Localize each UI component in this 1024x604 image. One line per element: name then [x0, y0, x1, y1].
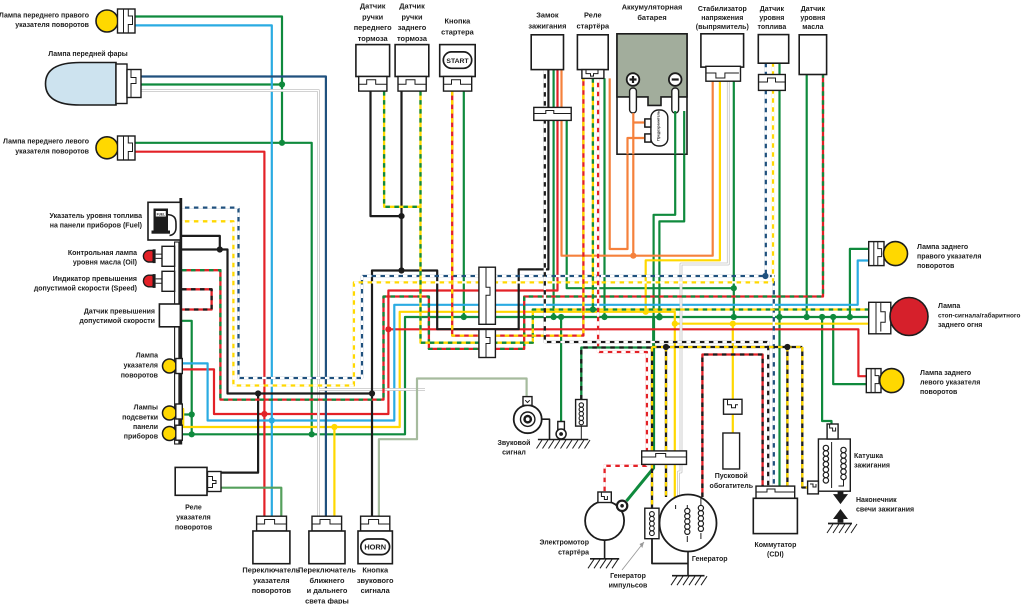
- fuel gauge panel (Fuel): [148, 202, 180, 240]
- wire yellow net: [183, 81, 869, 516]
- wire navy headlight high beam: [140, 77, 326, 517]
- speed sensor box: [159, 304, 180, 327]
- front brake sensor: [356, 45, 390, 92]
- wire red-white dashed starter relay to starter motor: [598, 78, 647, 492]
- wire navy-white dashed fuel gauge to fuel sensor: [180, 63, 773, 486]
- central connector block 1: [479, 267, 496, 324]
- wire green-black dashed to ground coil: [581, 348, 652, 400]
- svg-text:Датчикручкизаднеготормоза: Датчикручкизаднеготормоза: [397, 2, 428, 44]
- starter button: [440, 45, 476, 92]
- wire red-yellow dashed starter button to starter relay: [452, 78, 583, 335]
- svg-text:Лампа передней фары: Лампа передней фары: [48, 50, 128, 58]
- lamp stop and tail light: [869, 298, 928, 336]
- starting enrichment valve: [723, 399, 742, 469]
- wire white headlight: [140, 91, 425, 517]
- battery: [617, 34, 687, 155]
- svg-text:Генератор: Генератор: [692, 556, 728, 563]
- starter motor: [585, 492, 627, 568]
- rear brake sensor: [395, 45, 429, 92]
- svg-text:Стабилизаторнапряжения(выпрями: Стабилизаторнапряжения(выпрямитель): [696, 5, 749, 31]
- wire yellow-green dashed brake sensor to stop lamp: [384, 78, 869, 343]
- ground resistor coil element: [576, 400, 587, 440]
- svg-text:Датчикуровнятоплива: Датчикуровнятоплива: [758, 6, 787, 31]
- wire red-green dashed oil lamp to oil sensor: [182, 75, 823, 400]
- generator: [660, 495, 717, 586]
- CDI unit: [753, 486, 797, 533]
- wire light blue net: [135, 25, 869, 516]
- horn button: [358, 516, 392, 564]
- starter relay: [577, 35, 608, 79]
- central connector block 2: [479, 330, 496, 358]
- wire black impulse generator ground: [652, 538, 688, 564]
- wire pale green relay to turn switch: [220, 488, 281, 517]
- voltage regulator rectifier: [701, 34, 744, 81]
- wire red-black dashed speed indicator loop: [182, 289, 212, 309]
- turn signal relay: [175, 467, 221, 495]
- wire orange net: [562, 70, 713, 259]
- generator connector block: [642, 451, 687, 465]
- wire black panel net: [180, 70, 548, 517]
- panel illumination lamp 2: [163, 425, 183, 440]
- wire white regulator to generator: [678, 81, 728, 500]
- oil warning lamp LED: [143, 246, 174, 266]
- horn: [514, 397, 590, 449]
- svg-text:Датчикуровнямасла: Датчикуровнямасла: [800, 6, 825, 31]
- instrument panel bar: [175, 242, 179, 444]
- wire black-yellow dashed CDI ignition coil pickup: [652, 344, 809, 508]
- wire pale green horn button to horn: [379, 379, 527, 517]
- speed warning lamp LED: [143, 271, 174, 291]
- turn signal switch: [253, 516, 290, 564]
- ignition switch: [531, 35, 563, 70]
- svg-text:Кнопкастартера: Кнопкастартера: [441, 17, 475, 37]
- wire red net: [135, 70, 866, 517]
- ignition switch connector block: [534, 107, 571, 120]
- turn indicator lamp: [163, 359, 183, 374]
- lamp rear right turn signal: [869, 242, 908, 266]
- svg-text:START: START: [446, 58, 469, 65]
- svg-text:FUEL: FUEL: [157, 213, 165, 217]
- lamp front right turn signal: [96, 9, 135, 33]
- wire red-black dashed generator pickup to CDI: [702, 355, 762, 498]
- fuel level sensor: [758, 35, 788, 91]
- svg-text:Предохранитель: Предохранитель: [656, 110, 660, 141]
- wire black-white dashed ignition switch to CDI: [545, 70, 768, 487]
- wire yellow-white dashed fuel gauge to fuel sensor: [180, 63, 773, 385]
- impulse generator: [622, 508, 659, 570]
- headlight beam switch: [309, 516, 345, 564]
- lamp rear left turn signal: [866, 369, 903, 393]
- lamp front left turn signal: [96, 136, 135, 160]
- panel illumination lamp 1: [163, 404, 183, 420]
- spark plug cap arrows: [827, 491, 857, 534]
- ignition coil: [808, 424, 851, 494]
- lamp headlight: [46, 63, 142, 106]
- wire green net common: [135, 17, 869, 502]
- oil level sensor: [799, 35, 826, 75]
- svg-text:HORN: HORN: [364, 543, 386, 552]
